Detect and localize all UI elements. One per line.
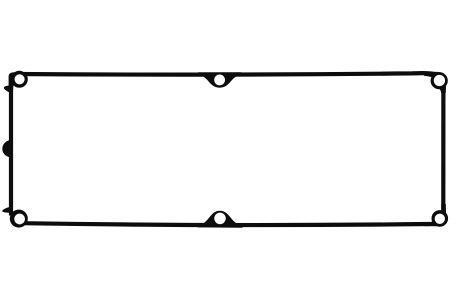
tab mid-left (semicircular lug) [2,140,10,157]
corner patch top-left [9,72,21,90]
boss top-left [11,71,28,88]
boss top-middle (hill hanging below top edge) [198,72,241,88]
bolt hole top-left [15,74,25,84]
tab lower-left (small horn) [2,207,11,213]
fillet neck top-right (boss to right edge) [435,86,445,93]
corner mass bottom-right [424,204,446,226]
bolt hole bottom-right [435,214,445,224]
bottom edge [22,223,430,225]
boss bottom-middle (hill above bottom edge) [198,211,243,228]
left edge [9,85,13,216]
top edge [16,73,437,75]
right edge [441,82,445,214]
bolt hole bottom-left [14,214,25,225]
bolt hole bottom-middle [214,213,226,225]
bolt hole top-middle [214,75,225,86]
boss bottom-right [432,210,449,227]
bolt hole top-right [434,75,445,86]
corner mass top-right [424,72,446,93]
boss bottom-left [10,210,28,228]
tab upper-left (small horn) [4,86,12,94]
boss top-right [431,72,448,89]
